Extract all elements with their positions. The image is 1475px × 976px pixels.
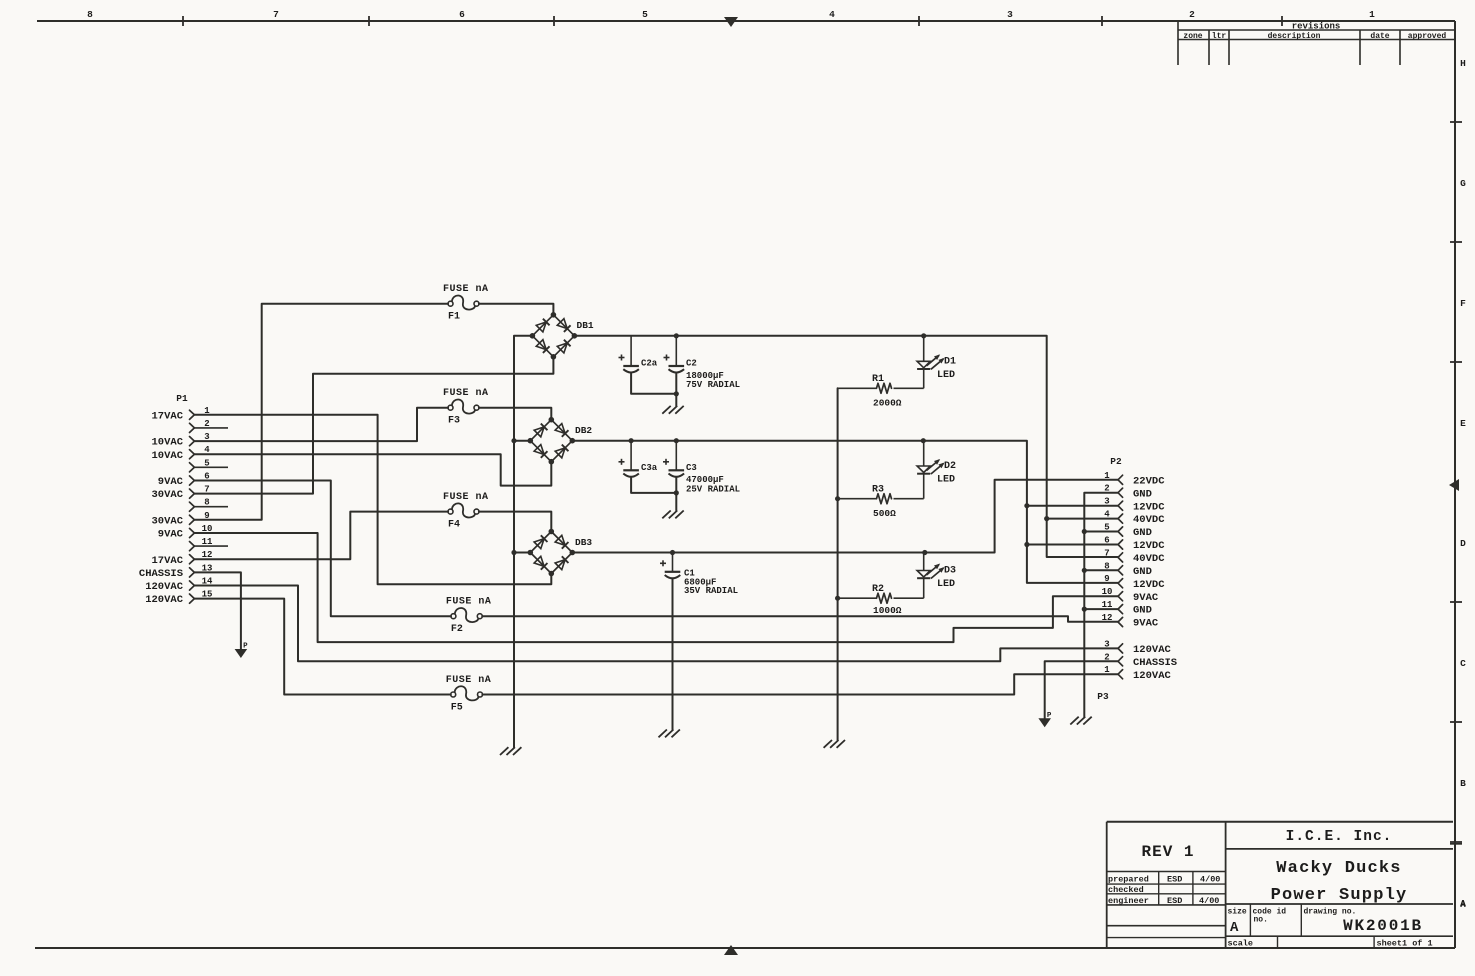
wire GND bus to P2 pin11 bbox=[1084, 608, 1118, 610]
svg-text:scale: scale bbox=[1228, 939, 1254, 949]
fuse F1 bbox=[443, 284, 489, 323]
ground at resistor bus bbox=[824, 740, 845, 748]
svg-text:C: C bbox=[1460, 658, 1466, 669]
svg-text:17VAC: 17VAC bbox=[151, 410, 183, 422]
svg-text:F5: F5 bbox=[451, 703, 463, 714]
svg-text:FUSE nA: FUSE nA bbox=[443, 388, 489, 399]
svg-text:F4: F4 bbox=[448, 520, 460, 531]
svg-text:ltr: ltr bbox=[1212, 32, 1227, 41]
LED D2 and resistor R3 bbox=[838, 441, 956, 519]
svg-text:DB2: DB2 bbox=[575, 425, 592, 436]
junction node rail3-D3 bbox=[922, 550, 927, 555]
bridge rectifier DB2 bbox=[528, 417, 593, 465]
svg-text:30VAC: 30VAC bbox=[151, 489, 183, 501]
svg-text:120VAC: 120VAC bbox=[145, 581, 184, 593]
wire C2a bottom jumper bbox=[631, 373, 676, 394]
svg-text:C3a: C3a bbox=[641, 463, 658, 473]
ground at C2 bbox=[662, 406, 683, 414]
svg-text:500Ω: 500Ω bbox=[873, 508, 896, 519]
svg-text:Wacky Ducks: Wacky Ducks bbox=[1276, 859, 1401, 878]
svg-text:R2: R2 bbox=[872, 584, 884, 595]
connector P3 bbox=[1097, 639, 1177, 702]
capacitor C1 bbox=[660, 553, 738, 597]
svg-text:date: date bbox=[1370, 32, 1389, 41]
title block bbox=[1107, 822, 1467, 949]
wire fuse F4 to DB3 top bbox=[479, 512, 551, 532]
svg-text:CHASSIS: CHASSIS bbox=[139, 568, 183, 580]
svg-text:engineer: engineer bbox=[1108, 896, 1149, 906]
svg-text:FUSE nA: FUSE nA bbox=[446, 597, 492, 608]
chassis ground near P3 bbox=[1038, 712, 1052, 728]
svg-text:10VAC: 10VAC bbox=[151, 437, 183, 449]
wire P1 pin12 to fuse F4 bbox=[194, 512, 448, 560]
wire fuse F1 to DB1 top bbox=[479, 304, 554, 315]
svg-text:C2: C2 bbox=[686, 359, 697, 369]
svg-text:35V RADIAL: 35V RADIAL bbox=[684, 586, 738, 596]
junction node Rbus-R3 bbox=[835, 496, 840, 501]
junction node rail1-C2 bbox=[674, 333, 679, 338]
svg-text:D: D bbox=[1460, 538, 1466, 549]
svg-text:7: 7 bbox=[273, 9, 279, 20]
capacitor C2 bbox=[664, 336, 741, 390]
svg-text:8: 8 bbox=[87, 9, 93, 20]
junction node 12VDC-P2pin6 bbox=[1024, 542, 1029, 547]
svg-text:C3: C3 bbox=[686, 463, 697, 473]
svg-text:1: 1 bbox=[1369, 9, 1375, 20]
svg-text:9VAC: 9VAC bbox=[158, 529, 184, 541]
wire C1 to ground bbox=[672, 579, 674, 730]
fuse F2 bbox=[446, 597, 492, 636]
svg-text:DB1: DB1 bbox=[577, 320, 594, 331]
svg-text:ESD: ESD bbox=[1167, 875, 1182, 885]
junction node rail2-C3 bbox=[674, 438, 679, 443]
svg-text:3: 3 bbox=[1007, 9, 1013, 20]
chassis ground near P1 bbox=[235, 643, 249, 659]
svg-text:LED: LED bbox=[937, 579, 955, 590]
svg-text:75V RADIAL: 75V RADIAL bbox=[686, 380, 740, 390]
svg-text:P: P bbox=[243, 643, 248, 651]
svg-text:GND: GND bbox=[1133, 566, 1152, 578]
fuse F5 bbox=[446, 675, 492, 714]
svg-text:40VDC: 40VDC bbox=[1133, 514, 1165, 526]
connector P1 bbox=[139, 393, 228, 606]
svg-text:A: A bbox=[1460, 900, 1466, 910]
wire fuse F3 to DB2 top bbox=[479, 408, 551, 420]
svg-text:10VAC: 10VAC bbox=[151, 450, 183, 462]
svg-text:F2: F2 bbox=[451, 624, 463, 635]
svg-text:checked: checked bbox=[1108, 885, 1144, 895]
svg-text:P2: P2 bbox=[1110, 456, 1122, 467]
svg-text:4/00: 4/00 bbox=[1200, 875, 1220, 885]
svg-text:H: H bbox=[1460, 58, 1466, 69]
wire 12VDC to P2 pin6 bbox=[1027, 544, 1118, 546]
svg-text:revisions: revisions bbox=[1292, 22, 1341, 32]
wire 12VDC to P2 pin3 bbox=[1027, 505, 1118, 507]
wire P1 pin9 to fuse F1 bbox=[194, 304, 448, 520]
svg-text:2000Ω: 2000Ω bbox=[873, 398, 902, 409]
bridge rectifier DB1 bbox=[530, 312, 594, 360]
wire DB1 bottom to P1 pin7 bbox=[194, 357, 553, 494]
wire C3a bottom jumper bbox=[631, 477, 676, 493]
wire P1 pin13 to chassis ground bbox=[194, 572, 241, 649]
svg-text:P3: P3 bbox=[1097, 691, 1109, 702]
svg-text:120VAC: 120VAC bbox=[145, 594, 184, 606]
ground at C3 bbox=[662, 511, 683, 519]
svg-text:R1: R1 bbox=[872, 374, 884, 385]
wire P1 pin3 to fuse F3 bbox=[194, 408, 448, 441]
junction node rail2-C3a bbox=[629, 438, 634, 443]
ground at C1 bbox=[659, 730, 680, 738]
junction node bus-DB2 bbox=[511, 438, 516, 443]
junction node C3 bottom bbox=[674, 490, 679, 495]
svg-text:9VAC: 9VAC bbox=[158, 476, 184, 488]
svg-text:E: E bbox=[1460, 418, 1466, 429]
svg-text:120VAC: 120VAC bbox=[1133, 644, 1172, 656]
wire GND bus to P2 pin5 bbox=[1084, 531, 1118, 533]
ground at P2 GND bus bbox=[1070, 717, 1091, 725]
svg-text:12VDC: 12VDC bbox=[1133, 579, 1165, 591]
junction node C2 bottom bbox=[674, 391, 679, 396]
svg-text:4/00: 4/00 bbox=[1199, 896, 1219, 906]
svg-text:9VAC: 9VAC bbox=[1133, 592, 1159, 604]
svg-text:D3: D3 bbox=[944, 566, 956, 577]
svg-text:size: size bbox=[1228, 908, 1247, 917]
svg-text:REV 1: REV 1 bbox=[1141, 843, 1194, 861]
wire P2 GND bus bbox=[1084, 493, 1118, 717]
junction node bus-DB3 bbox=[511, 550, 516, 555]
svg-text:F: F bbox=[1460, 298, 1466, 309]
svg-text:zone: zone bbox=[1183, 32, 1202, 41]
svg-text:D1: D1 bbox=[944, 356, 956, 367]
svg-text:1000Ω: 1000Ω bbox=[873, 605, 902, 616]
svg-text:6: 6 bbox=[459, 9, 465, 20]
wire C2 to ground bbox=[675, 373, 677, 406]
svg-text:G: G bbox=[1460, 178, 1466, 189]
wire GND bus to P2 pin8 bbox=[1084, 569, 1118, 571]
svg-text:FUSE nA: FUSE nA bbox=[446, 675, 492, 686]
svg-text:prepared: prepared bbox=[1108, 875, 1149, 885]
junction node GND-pin8 bbox=[1082, 568, 1087, 573]
svg-text:GND: GND bbox=[1133, 488, 1152, 500]
svg-text:R3: R3 bbox=[872, 484, 884, 495]
svg-text:P1: P1 bbox=[176, 393, 188, 404]
svg-text:9VAC: 9VAC bbox=[1133, 618, 1159, 630]
wire 40VDC to P2 pin4 bbox=[1047, 518, 1118, 520]
junction node rail3-C1 bbox=[670, 550, 675, 555]
bridge rectifier DB3 bbox=[528, 529, 593, 577]
svg-text:no.: no. bbox=[1254, 916, 1268, 925]
wire DB bridge left bus to ground bbox=[514, 336, 532, 747]
wire DB1 plus rail 40VDC bbox=[574, 336, 1118, 557]
junction node Rbus-R2 bbox=[835, 596, 840, 601]
capacitor C2a bbox=[619, 336, 658, 373]
LED D1 and resistor R1 bbox=[838, 336, 956, 409]
LED D3 and resistor R2 bbox=[838, 553, 956, 616]
svg-text:17VAC: 17VAC bbox=[151, 555, 183, 567]
svg-text:FUSE nA: FUSE nA bbox=[443, 492, 489, 503]
svg-text:12VDC: 12VDC bbox=[1133, 501, 1165, 513]
junction node 40VDC-P2pin4 bbox=[1044, 516, 1049, 521]
svg-text:120VAC: 120VAC bbox=[1133, 670, 1172, 682]
junction node GND-pin11 bbox=[1082, 607, 1087, 612]
wire DB2 plus rail 12VDC bbox=[572, 441, 1118, 583]
svg-text:ESD: ESD bbox=[1167, 896, 1182, 906]
svg-text:DB3: DB3 bbox=[575, 537, 592, 548]
svg-text:GND: GND bbox=[1133, 605, 1152, 617]
revisions table bbox=[1178, 21, 1455, 65]
wire P1 pin15 to fuse F5 bbox=[194, 599, 450, 695]
svg-text:2: 2 bbox=[1189, 9, 1195, 20]
wire C3 to ground bbox=[675, 477, 677, 510]
svg-text:F1: F1 bbox=[448, 312, 460, 323]
capacitor C3 bbox=[663, 441, 740, 495]
ground at AC bus bbox=[500, 747, 521, 755]
capacitor C3a bbox=[619, 441, 658, 477]
svg-text:description: description bbox=[1268, 32, 1321, 41]
svg-text:P: P bbox=[1047, 712, 1052, 720]
svg-text:drawing no.: drawing no. bbox=[1304, 908, 1357, 917]
wire DB3 bottom to P1 pin1 bbox=[194, 415, 551, 584]
wire P3 pin2 to chassis ground bbox=[1045, 661, 1118, 718]
svg-text:GND: GND bbox=[1133, 527, 1152, 539]
fuse F3 bbox=[443, 388, 489, 427]
svg-text:40VDC: 40VDC bbox=[1133, 553, 1165, 565]
svg-text:30VAC: 30VAC bbox=[151, 515, 183, 527]
wire fuse F5 to P3 pin1 bbox=[482, 674, 1118, 694]
svg-text:FUSE nA: FUSE nA bbox=[443, 284, 489, 295]
svg-text:4: 4 bbox=[829, 9, 835, 20]
svg-text:A: A bbox=[1230, 920, 1239, 936]
svg-text:D2: D2 bbox=[944, 461, 956, 472]
svg-text:LED: LED bbox=[937, 475, 955, 486]
svg-text:12VDC: 12VDC bbox=[1133, 540, 1165, 552]
wire P1 pin14 to P3 pin3 bbox=[194, 586, 1118, 662]
wire resistor bus to ground bbox=[837, 388, 839, 740]
junction node GND-pin5 bbox=[1082, 529, 1087, 534]
junction node rail1-D1 bbox=[921, 333, 926, 338]
wire P1 pin6 to fuse F2 bbox=[194, 481, 451, 617]
junction node rail2-D2 bbox=[921, 438, 926, 443]
fuse F4 bbox=[443, 492, 489, 530]
connector P2 bbox=[1102, 456, 1166, 630]
svg-text:I.C.E. Inc.: I.C.E. Inc. bbox=[1286, 829, 1393, 845]
svg-text:sheet1 of 1: sheet1 of 1 bbox=[1377, 939, 1433, 949]
svg-text:F3: F3 bbox=[448, 416, 460, 427]
svg-text:approved: approved bbox=[1408, 32, 1447, 41]
svg-text:CHASSIS: CHASSIS bbox=[1133, 657, 1177, 669]
wire DB3 plus rail 22VDC bbox=[572, 480, 1118, 553]
wire bus to DB2 left bbox=[514, 440, 530, 442]
wire DB2 bottom to P1 pin4 bbox=[194, 454, 551, 485]
svg-text:WK2001B: WK2001B bbox=[1343, 917, 1423, 935]
junction node 12VDC-P2pin3 bbox=[1024, 503, 1029, 508]
wire bus to DB3 left bbox=[514, 552, 530, 554]
svg-text:22VDC: 22VDC bbox=[1133, 475, 1165, 487]
svg-text:C2a: C2a bbox=[641, 359, 658, 369]
svg-text:LED: LED bbox=[937, 370, 955, 381]
wire P1 pin10 to P2 pin10 bbox=[194, 533, 1118, 642]
svg-text:25V RADIAL: 25V RADIAL bbox=[686, 484, 740, 494]
wire fuse F2 to P2 pin12 bbox=[482, 616, 1118, 622]
svg-text:Power Supply: Power Supply bbox=[1271, 886, 1408, 905]
svg-text:5: 5 bbox=[642, 9, 648, 20]
svg-text:B: B bbox=[1460, 778, 1466, 789]
